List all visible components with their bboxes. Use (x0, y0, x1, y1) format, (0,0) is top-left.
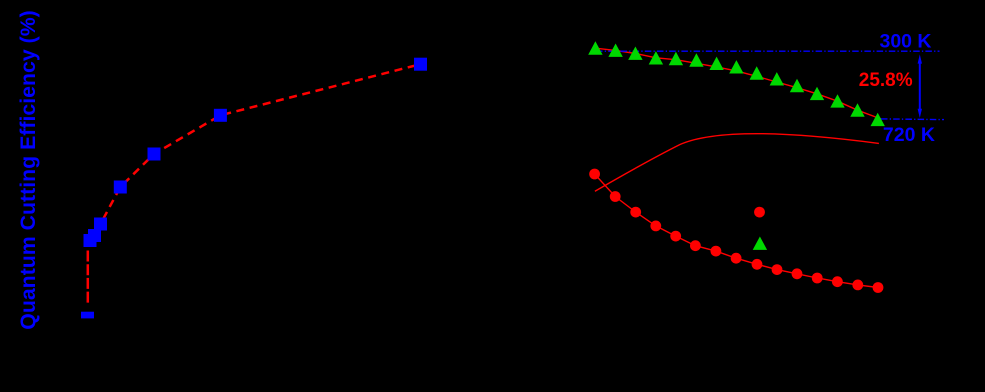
left panel dashed red data line (87, 251, 90, 304)
blue dash-dot line 300K (596, 50, 940, 52)
green triangles series (588, 41, 885, 126)
svg-text:25.8%: 25.8% (859, 70, 913, 91)
red circle markers (589, 169, 883, 293)
isolated green triangle (753, 237, 767, 250)
square marker S5 (114, 181, 127, 194)
standalone red curve (595, 134, 879, 192)
square marker S3 (88, 229, 101, 242)
square marker S7 (214, 109, 227, 122)
square marker S6 (148, 148, 161, 161)
y-axis label: Quantum Cutting Efficiency (%) (16, 10, 40, 329)
svg-text:Quantum Cutting Efficiency (%): Quantum Cutting Efficiency (%) (16, 10, 40, 329)
square marker S4 (94, 218, 107, 231)
square marker S1 (clipped at axis) (81, 312, 94, 319)
red line through circles (595, 174, 878, 288)
svg-text:720 K: 720 K (883, 124, 935, 146)
square marker S8 (414, 58, 427, 71)
square marker S2 (84, 234, 97, 247)
right panel: red fit line through triangles (595, 48, 881, 119)
blue double-headed arrow (918, 54, 922, 118)
svg-text:300 K: 300 K (879, 30, 931, 52)
isolated red circle (754, 207, 765, 218)
blue dash-dot line 720K (881, 118, 944, 121)
